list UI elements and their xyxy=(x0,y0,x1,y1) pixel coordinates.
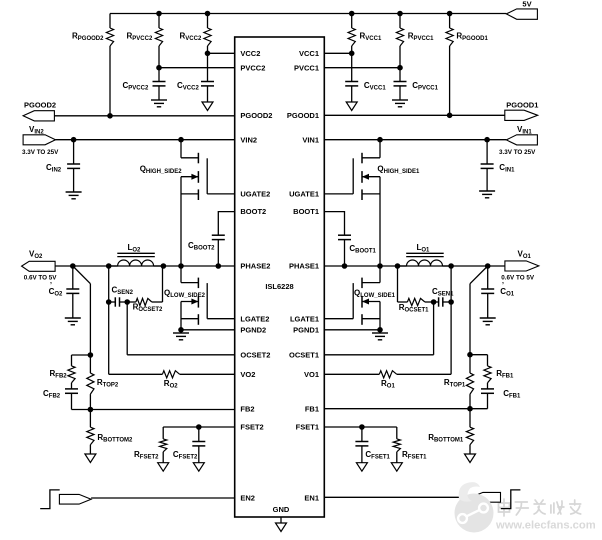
label QHIGH_SIDE1 xyxy=(377,165,420,176)
label ROCSET1 xyxy=(399,303,429,314)
wire xyxy=(55,265,235,267)
svg-text:BOOT1: BOOT1 xyxy=(293,207,319,216)
svg-text:VO2: VO2 xyxy=(240,370,255,379)
resistor RPGOOD2 xyxy=(106,14,113,116)
capacitor CPVCC2 xyxy=(153,68,166,100)
label CFSET1 xyxy=(365,450,390,461)
node PVCC2 xyxy=(156,65,162,71)
resistor ROCSET2 xyxy=(127,298,162,305)
wire EN1 xyxy=(324,496,471,498)
node VO2 sense xyxy=(106,299,112,305)
wire xyxy=(324,114,505,116)
capacitor CSEN1 xyxy=(434,297,452,306)
wire QHS2 source to phase xyxy=(180,177,182,266)
ground arrow under CVCC2 xyxy=(202,102,213,111)
connector PGOOD2 xyxy=(23,111,54,121)
label RFSET1 xyxy=(402,450,427,461)
node CIN1 xyxy=(484,137,490,143)
resistor RTOP1 xyxy=(466,355,473,409)
ground arrow under CFSET1 xyxy=(356,463,367,472)
capacitor CBOOT1 xyxy=(338,235,351,266)
label 0.6V TO 5V left xyxy=(24,275,58,282)
label RBOTTOM1 xyxy=(428,433,464,444)
step symbol EN2 xyxy=(40,490,60,509)
wire QLS2 drain xyxy=(180,266,182,283)
node PGND1 xyxy=(377,327,383,333)
ground arrow under RBOTTOM2 xyxy=(85,454,96,463)
node CFSET1 xyxy=(359,424,365,430)
resistor RFSET1 xyxy=(393,427,400,463)
wire QHS1 source to phase xyxy=(379,177,381,266)
label CBOOT1 xyxy=(349,244,376,255)
node PGOOD2 xyxy=(107,113,113,119)
label CO2 xyxy=(49,282,63,298)
label CIN1 xyxy=(499,163,515,174)
svg-text:0.6V TO 5V: 0.6V TO 5V xyxy=(501,275,535,282)
node VCC2 xyxy=(205,51,211,57)
label VIN2 xyxy=(29,125,44,136)
label RFSET2 xyxy=(134,450,159,461)
label PGOOD2 xyxy=(24,101,56,110)
wire xyxy=(54,115,234,117)
wire divider1 leg xyxy=(469,284,471,355)
label RBOTTOM2 xyxy=(97,433,133,444)
node CBOOT1 bottom xyxy=(342,263,348,269)
capacitor CFB1 xyxy=(481,383,494,409)
wire OCSET2 xyxy=(127,302,235,355)
wire VO1 right xyxy=(397,373,451,375)
capacitor CSEN2 xyxy=(109,297,128,306)
wire OCSET1 xyxy=(324,302,433,355)
label CPVCC2 xyxy=(123,81,149,92)
wire BOOT2 xyxy=(218,212,234,236)
wire CFB2 bottom xyxy=(72,409,91,411)
wire xyxy=(56,139,235,141)
watermark elecfans text xyxy=(495,499,596,532)
resistor RPVCC2 xyxy=(155,14,162,68)
label LO2 xyxy=(128,243,142,254)
svg-text:FB1: FB1 xyxy=(305,405,319,414)
transistor QHIGH_SIDE2 xyxy=(181,153,235,200)
label CVCC2 xyxy=(177,81,199,92)
wire PGND1 xyxy=(324,329,380,331)
wire FSET1 xyxy=(324,426,397,428)
wire RFB2 top xyxy=(72,354,91,356)
label CIN2 xyxy=(46,163,62,174)
svg-text:FSET2: FSET2 xyxy=(240,423,263,432)
wire sense1 left leg xyxy=(397,266,399,302)
IC pin labels xyxy=(240,49,319,514)
svg-text:UGATE2: UGATE2 xyxy=(240,190,270,199)
junction on 5V rail xyxy=(397,11,403,17)
wire PGND2 xyxy=(181,329,235,331)
wire QLS1 source to gnd xyxy=(379,302,381,330)
node FB1 xyxy=(467,406,473,412)
label RPVCC1 xyxy=(408,32,434,43)
svg-text:LGATE2: LGATE2 xyxy=(240,314,269,323)
resistor RFSET2 xyxy=(160,427,167,463)
wire BOOT1 xyxy=(324,212,344,236)
node PHASE1 fets xyxy=(377,263,383,269)
svg-text:PVCC1: PVCC1 xyxy=(294,63,319,72)
transistor QLOW_SIDE2 xyxy=(181,278,235,325)
svg-text:FSET1: FSET1 xyxy=(296,423,319,432)
svg-text:0.6V TO 5V: 0.6V TO 5V xyxy=(24,275,58,282)
label 3.3V TO 25V right xyxy=(499,149,536,156)
wire xyxy=(324,67,400,69)
wire divider2 leg xyxy=(89,284,91,355)
svg-text:VIN1: VIN1 xyxy=(302,135,319,144)
node QHS1 drain xyxy=(377,137,383,143)
step symbol EN1 xyxy=(501,490,521,509)
svg-text:GND: GND xyxy=(273,505,290,514)
svg-text:3.3V TO 25V: 3.3V TO 25V xyxy=(499,149,536,156)
connector VIN2 xyxy=(23,135,55,145)
capacitor CFB2 xyxy=(65,383,78,410)
wire xyxy=(324,52,351,54)
resistor RTOP2 xyxy=(87,355,94,410)
label ROCSET2 xyxy=(133,303,163,314)
ground under CIN1 xyxy=(479,191,495,198)
label CFB1 xyxy=(503,389,521,400)
svg-text:PGND2: PGND2 xyxy=(240,325,266,334)
node LO1 out xyxy=(448,263,454,269)
label 5V xyxy=(522,0,531,9)
svg-text:VCC2: VCC2 xyxy=(240,49,260,58)
wire VO2 right xyxy=(180,373,235,375)
wire QHS2 drain xyxy=(180,140,182,158)
svg-text:PGOOD1: PGOOD1 xyxy=(287,111,319,120)
label VIN1 xyxy=(517,125,532,136)
node PHASE2 fets xyxy=(178,263,184,269)
resistor RVCC1 xyxy=(348,14,355,54)
label VO1 xyxy=(518,250,532,261)
resistor RBOTTOM2 xyxy=(87,410,94,455)
wire EN2 xyxy=(91,497,235,499)
wire QLS2 source to gnd xyxy=(180,302,182,330)
wire VO2 left xyxy=(109,373,163,375)
node QHS2 drain xyxy=(178,137,184,143)
transistor QHIGH_SIDE1 xyxy=(324,153,380,200)
label CFSET2 xyxy=(173,450,198,461)
resistor RPGOOD1 xyxy=(446,14,453,116)
wire FSET2 xyxy=(163,426,235,428)
junction on 5V rail xyxy=(447,11,453,17)
connector EN2 xyxy=(59,494,91,504)
label CSEN2 xyxy=(112,286,134,297)
node FB2 xyxy=(88,407,94,413)
inductor LO1 xyxy=(398,253,452,266)
wire xyxy=(110,13,506,15)
junction on 5V rail xyxy=(205,11,211,17)
ground under CPVCC2 xyxy=(151,100,167,107)
connector PGOOD1 xyxy=(505,110,538,120)
label RFB2 xyxy=(50,369,68,380)
label CO1 xyxy=(500,282,514,298)
svg-text:PGND1: PGND1 xyxy=(293,325,319,334)
svg-text:3.3V TO 25V: 3.3V TO 25V xyxy=(22,149,59,156)
svg-text:PGOOD2: PGOOD2 xyxy=(24,101,56,110)
wire VO2 leg xyxy=(108,302,110,374)
junction on 5V rail xyxy=(349,11,355,17)
capacitor CIN1 xyxy=(481,140,494,191)
label QLOW_SIDE1 xyxy=(354,289,396,300)
label RPGOOD1 xyxy=(456,32,488,43)
label CBOOT2 xyxy=(188,241,215,252)
capacitor CO1 xyxy=(481,266,494,318)
capacitor CPVCC1 xyxy=(394,68,407,100)
capacitor CBOOT2 xyxy=(212,235,225,266)
resistor RPVCC1 xyxy=(396,14,403,68)
svg-text:VCC1: VCC1 xyxy=(299,49,319,58)
svg-text:BOOT2: BOOT2 xyxy=(240,207,266,216)
capacitor CFSET2 xyxy=(192,427,205,463)
svg-text:www.elecfans.com: www.elecfans.com xyxy=(495,520,596,532)
label RFB1 xyxy=(496,369,514,380)
svg-text:FB2: FB2 xyxy=(240,405,254,414)
wire xyxy=(324,265,505,267)
ground arrow under RFSET1 xyxy=(391,463,402,472)
transistor QLOW_SIDE1 xyxy=(324,278,380,325)
resistor RVCC2 xyxy=(204,14,211,54)
connector EN1 xyxy=(471,492,501,502)
wire VO1 leg xyxy=(450,302,452,374)
wire sense1 right leg xyxy=(450,266,452,302)
node divider1 top xyxy=(467,352,473,358)
resistor ROCSET1 xyxy=(398,298,434,305)
wire VO1 left xyxy=(324,373,379,375)
resistor RO1 xyxy=(379,371,397,378)
svg-text:LGATE1: LGATE1 xyxy=(290,314,319,323)
node CFSET2 xyxy=(196,424,202,430)
svg-text:5V: 5V xyxy=(522,0,531,9)
wire QLS1 drain xyxy=(379,266,381,283)
wire VO1 divider diagonal xyxy=(470,266,488,284)
svg-text:ISL6228: ISL6228 xyxy=(265,282,293,291)
svg-text:PVCC2: PVCC2 xyxy=(240,63,265,72)
label RTOP2 xyxy=(97,378,119,389)
svg-text:EN1: EN1 xyxy=(304,494,319,503)
wire xyxy=(208,52,235,54)
label CVCC1 xyxy=(364,81,386,92)
label RPVCC2 xyxy=(127,32,153,43)
ground arrow under CVCC1 xyxy=(346,102,357,111)
label RVCC1 xyxy=(360,32,382,43)
resistor RBOTTOM1 xyxy=(466,409,473,454)
node LO2 out xyxy=(106,263,112,269)
svg-text:VIN2: VIN2 xyxy=(240,135,257,144)
ground under CO1 xyxy=(480,318,496,325)
resistor RO2 xyxy=(162,371,179,378)
capacitor CIN2 xyxy=(67,140,80,192)
wire QHS1 drain xyxy=(379,140,381,158)
ground GND pin xyxy=(276,517,287,532)
svg-text:OCSET2: OCSET2 xyxy=(240,350,270,359)
ground under CO2 xyxy=(65,318,81,325)
node VO1 xyxy=(485,263,491,269)
svg-text:PGOOD1: PGOOD1 xyxy=(506,101,538,110)
capacitor CVCC1 xyxy=(345,53,358,102)
wire RFB1 top xyxy=(470,354,488,356)
label RTOP1 xyxy=(444,378,466,389)
label CPVCC1 xyxy=(412,81,438,92)
svg-text:UGATE1: UGATE1 xyxy=(289,190,319,199)
svg-text:PHASE1: PHASE1 xyxy=(289,262,319,271)
node VO2 xyxy=(70,263,76,269)
label QHIGH_SIDE2 xyxy=(140,165,183,176)
node PVCC1 xyxy=(397,65,403,71)
svg-text:VO1: VO1 xyxy=(304,370,319,379)
capacitor CVCC2 xyxy=(201,53,214,102)
node divider2 top xyxy=(88,352,94,358)
wire xyxy=(324,139,506,141)
connector 5V xyxy=(506,9,537,19)
label 0.6V TO 5V right xyxy=(501,275,535,282)
label CSEN1 xyxy=(432,287,454,298)
svg-text:EN2: EN2 xyxy=(240,494,255,503)
ground PGND1 xyxy=(372,330,388,340)
op-amp U1 ISL6228 box xyxy=(235,37,325,517)
inductor LO2 xyxy=(109,253,164,266)
wire CSEN2 left leg xyxy=(108,266,110,302)
node VCC1 xyxy=(349,51,355,57)
connector VO2 xyxy=(22,261,56,271)
resistor RFB2 xyxy=(68,355,75,383)
label CFB2 xyxy=(43,389,61,400)
svg-text:PHASE2: PHASE2 xyxy=(240,262,270,271)
label RVCC2 xyxy=(180,32,202,43)
ground under CIN2 xyxy=(66,192,82,199)
node VO1 sense xyxy=(448,299,454,305)
svg-text:PGOOD2: PGOOD2 xyxy=(240,111,272,120)
label RO1 xyxy=(381,379,395,390)
node OCSET1 tap xyxy=(431,299,437,305)
wire FB2 xyxy=(90,409,234,411)
capacitor CFSET1 xyxy=(355,427,368,463)
node CBOOT2 bottom xyxy=(216,263,222,269)
ground under CPVCC1 xyxy=(392,100,408,107)
node CIN2 xyxy=(71,137,77,143)
wire sense2 right leg xyxy=(162,266,164,302)
label 3.3V TO 25V left xyxy=(22,149,59,156)
svg-text:OCSET1: OCSET1 xyxy=(289,350,319,359)
label RPGOOD2 xyxy=(72,32,104,43)
node PGOOD1 xyxy=(447,113,453,119)
connector VO1 xyxy=(505,261,539,271)
label QLOW_SIDE2 xyxy=(164,289,206,300)
wire FB1 xyxy=(324,408,470,410)
label VO2 xyxy=(29,250,43,261)
label LO1 xyxy=(417,243,431,254)
wire xyxy=(159,67,235,69)
connector VIN1 xyxy=(506,135,537,145)
resistor RFB1 xyxy=(484,355,491,383)
junction on 5V rail xyxy=(156,11,162,17)
ground arrow under RBOTTOM1 xyxy=(465,454,476,463)
watermark elecfans logo xyxy=(455,482,494,532)
label PGOOD1 xyxy=(506,101,538,110)
node LO2 phase xyxy=(161,263,167,269)
ground PGND2 xyxy=(173,330,189,340)
ground arrow under CFSET2 xyxy=(193,463,204,472)
capacitor CO2 xyxy=(66,266,79,318)
label RO2 xyxy=(164,379,178,390)
ground arrow under RFSET2 xyxy=(158,463,169,472)
node LO1 phase xyxy=(395,263,401,269)
node PGND2 xyxy=(178,327,184,333)
wire CFB1 bottom xyxy=(470,408,488,410)
node OCSET2 tap xyxy=(124,299,130,305)
wire VO2 divider diagonal xyxy=(73,266,91,284)
